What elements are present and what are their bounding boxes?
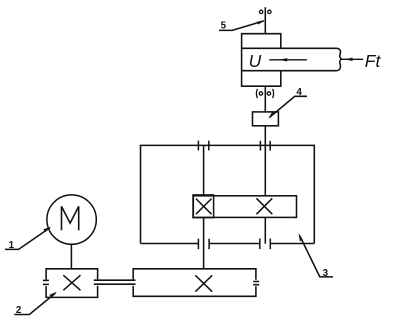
X mark pulley 2 (63, 275, 80, 290)
bearing ticks top-right shaft (260, 141, 270, 151)
pinion box (small crossed box on left shaft) (193, 195, 214, 218)
label 1 leader (5, 227, 51, 250)
wire (shaft between drum and coupling) (264, 86, 266, 111)
force Ft arrow (342, 58, 364, 61)
wire (drum shaft upper segment) (264, 7, 266, 34)
gear block (long rectangle on both shafts) (193, 196, 296, 218)
bearing ticks top-left shaft (198, 141, 208, 151)
belt upper edge (242, 47, 337, 49)
X mark pinion (196, 199, 212, 215)
label 3 leader (298, 233, 333, 277)
driven pulley box (below gearbox, on left shaft) (133, 269, 256, 297)
bearing ticks bottom-right shaft (260, 239, 271, 250)
label Ft (365, 51, 382, 71)
shaft stubs right of driven pulley (253, 282, 259, 285)
label 4 text (296, 87, 302, 98)
motor letter M (62, 206, 79, 230)
bearing ticks bottom-left shaft (198, 239, 209, 250)
coupling 4 (box) (253, 112, 279, 126)
wire (gearbox output shaft, left, upper segment) (203, 145, 205, 195)
wire (gearbox output shaft, left, lower segment) (203, 218, 205, 269)
svg-text:Ft: Ft (365, 51, 382, 71)
drum U (housing rectangle) (242, 34, 281, 86)
bearing 5b (drum lower bearing, parenthesised) (256, 89, 273, 98)
pulley 2 box (on motor shaft) (46, 269, 98, 298)
shaft stubs left of pulley 2 (43, 280, 49, 284)
label 4 leader (268, 96, 307, 118)
motor M circle (47, 195, 96, 244)
label U (drum) (249, 51, 262, 71)
svg-text:3: 3 (323, 268, 329, 279)
label 2 leader (14, 292, 57, 315)
label 5 leader (219, 21, 265, 31)
belt (double line between pulleys) (94, 280, 136, 284)
svg-text:5: 5 (221, 21, 227, 32)
svg-text:2: 2 (16, 305, 22, 316)
wire (gearbox input shaft, right, lower segment) (264, 217, 266, 243)
wire (gearbox input shaft, right, upper segment) (264, 126, 266, 196)
gearbox 3 housing (141, 145, 315, 243)
belt direction arrow (269, 58, 307, 61)
label 2 text (16, 305, 22, 316)
label 3 text (323, 268, 329, 279)
belt lower edge (242, 70, 337, 72)
svg-text:1: 1 (9, 240, 15, 251)
bearing 5a (drum upper bearing circles) (259, 10, 271, 13)
wire (motor shaft down to pulley) (70, 244, 72, 268)
svg-text:4: 4 (296, 87, 302, 98)
X mark gear (right shaft) (256, 198, 272, 214)
belt break (right end brace) (337, 48, 342, 70)
label 5 text (221, 21, 227, 32)
X mark driven pulley (195, 275, 212, 291)
label 1 text (9, 240, 15, 251)
svg-text:U: U (249, 51, 262, 71)
